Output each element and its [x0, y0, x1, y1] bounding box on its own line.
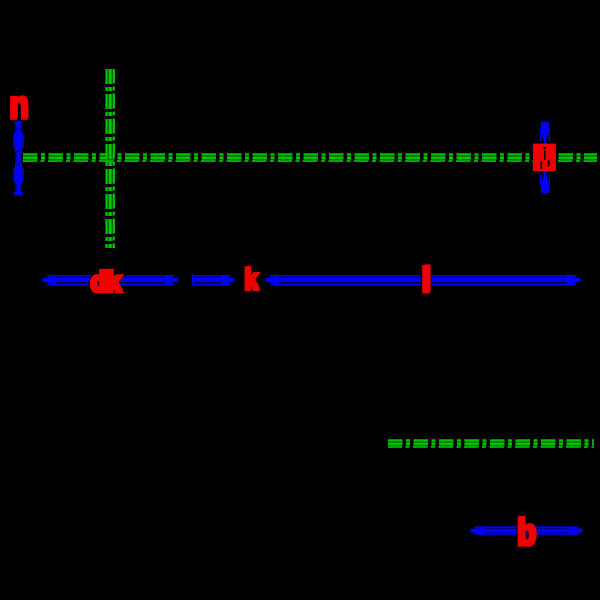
svg-text:n: n — [9, 85, 28, 127]
svg-text:k: k — [244, 263, 258, 296]
svg-text:l: l — [421, 261, 431, 300]
svg-text:b: b — [517, 512, 536, 553]
svg-text:dk: dk — [91, 266, 121, 297]
